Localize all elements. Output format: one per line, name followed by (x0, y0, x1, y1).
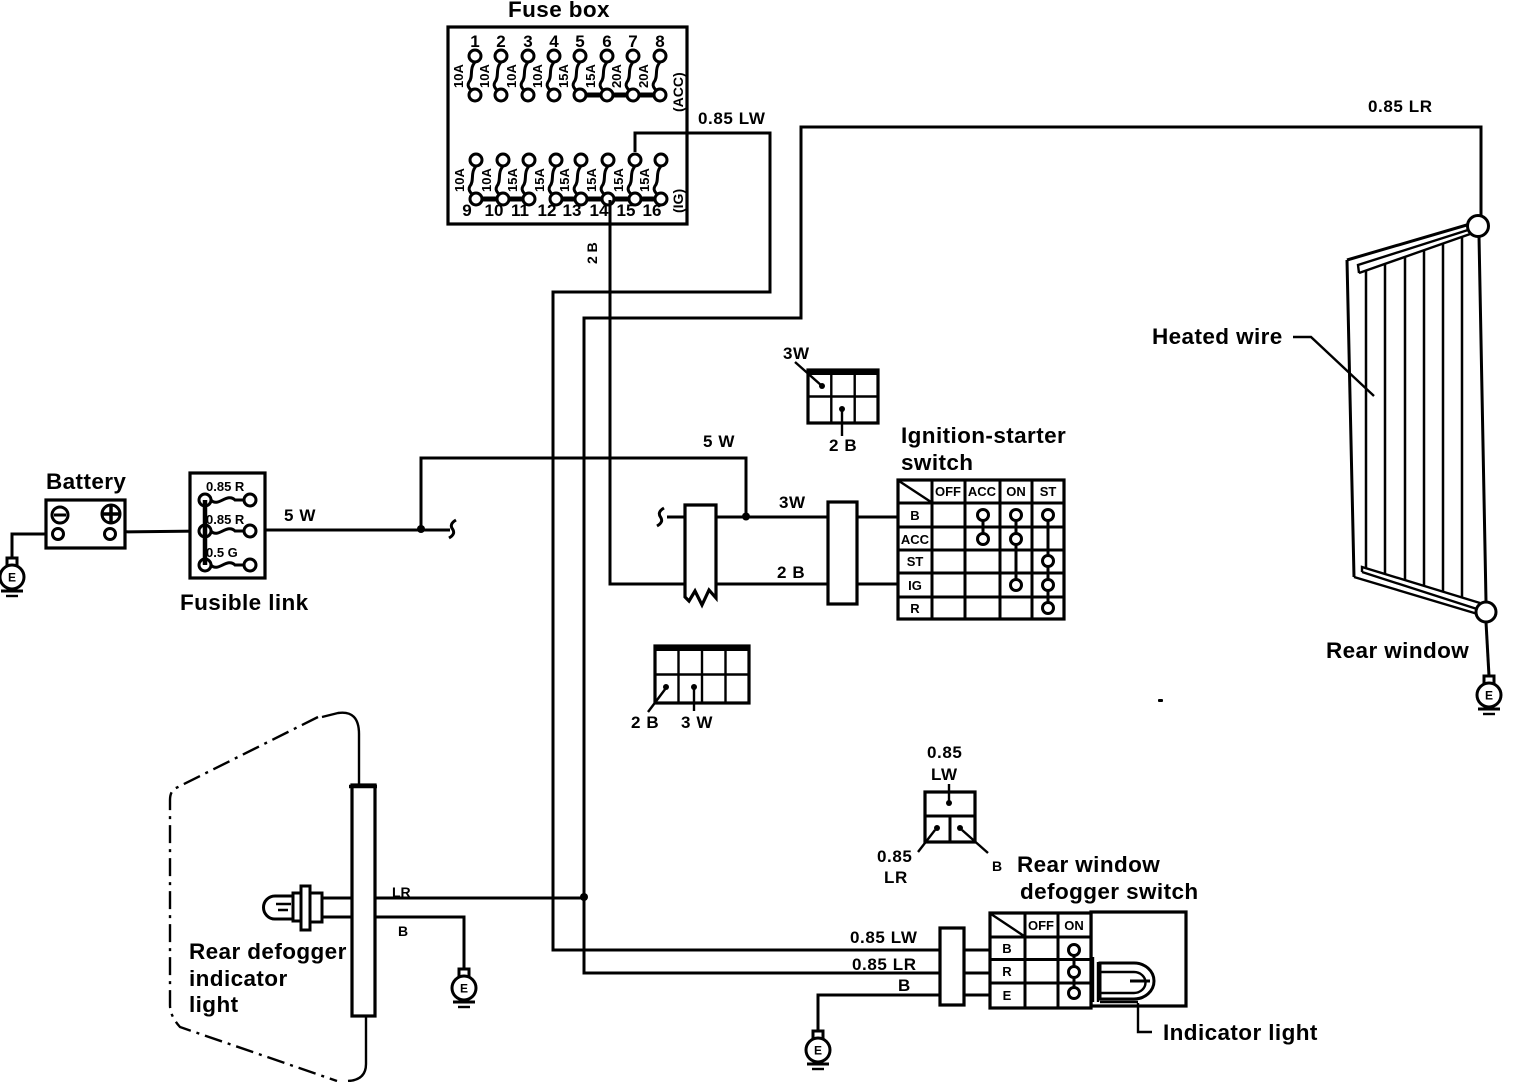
svg-text:E: E (1003, 988, 1012, 1003)
svg-text:B: B (898, 976, 911, 995)
svg-text:3W: 3W (783, 344, 810, 363)
connector grid 3x2 (783, 344, 878, 455)
svg-text:E: E (460, 982, 468, 996)
fuse 10 (10A) (479, 154, 509, 220)
junction node LR (580, 893, 588, 901)
svg-text:Indicator light: Indicator light (1163, 1020, 1318, 1045)
svg-text:Heated wire: Heated wire (1152, 324, 1283, 349)
svg-text:3W: 3W (779, 493, 806, 512)
svg-text:2 B: 2 B (829, 436, 857, 455)
svg-text:Ignition-starter: Ignition-starter (901, 423, 1066, 448)
fuse 12 (15A) (532, 154, 562, 220)
svg-text:ST: ST (907, 554, 924, 569)
svg-text:15A: 15A (532, 168, 547, 192)
svg-text:10A: 10A (479, 168, 494, 192)
svg-text:(IG): (IG) (670, 189, 686, 213)
wire 0.85 LW from fuse 15 to defogger switch (553, 133, 990, 950)
fuse 6 (15A) (583, 32, 613, 101)
connector symbol on 3W wire (657, 508, 664, 526)
svg-text:15A: 15A (584, 168, 599, 192)
wire LR indicator light branch (376, 897, 584, 900)
svg-text:IG: IG (908, 578, 922, 593)
svg-text:15A: 15A (611, 168, 626, 192)
svg-text:Fusible link: Fusible link (180, 590, 309, 615)
svg-text:5 W: 5 W (284, 506, 316, 525)
rear window (1326, 216, 1496, 664)
svg-text:R: R (1002, 964, 1012, 979)
fuse 14 (15A) (584, 154, 614, 220)
svg-text:indicator: indicator (189, 966, 288, 991)
svg-text:2 B: 2 B (631, 713, 659, 732)
svg-text:Rear defogger: Rear defogger (189, 939, 347, 964)
svg-text:E: E (814, 1044, 822, 1058)
connector symbol on 5W wire (449, 520, 456, 538)
rear defogger indicator panel outline (170, 713, 377, 1081)
svg-text:0.5 G: 0.5 G (206, 545, 238, 560)
svg-text:2 B: 2 B (584, 242, 600, 264)
fuse 7 (20A) (609, 32, 639, 101)
fuse 9 (10A) (452, 154, 482, 220)
fuse 11 (15A) (505, 154, 535, 220)
connector grid 4x2 (631, 646, 749, 732)
wire B indicator light to ground (376, 917, 464, 969)
svg-text:switch: switch (901, 450, 973, 475)
wire 3W to ignition switch (667, 516, 898, 519)
svg-text:OFF: OFF (1028, 918, 1054, 933)
fuse 13 (15A) (557, 154, 587, 220)
svg-text:(ACC): (ACC) (670, 72, 686, 112)
rear window defogger switch (990, 852, 1199, 1008)
svg-text:15A: 15A (556, 64, 571, 88)
svg-text:Fuse box: Fuse box (508, 0, 610, 22)
svg-text:ON: ON (1006, 484, 1026, 499)
wire B defogger switch to ground (818, 995, 990, 1031)
indicator bulb (264, 886, 323, 930)
ground indicator B (452, 969, 476, 1007)
fuse 8 (20A) (636, 32, 666, 101)
svg-text:4: 4 (549, 32, 559, 51)
small connector 1+2 (877, 743, 1002, 887)
svg-text:B: B (992, 858, 1002, 874)
svg-text:5 W: 5 W (703, 432, 735, 451)
svg-text:R: R (910, 601, 920, 616)
fusible link (180, 473, 316, 615)
connector rect defogger (940, 928, 964, 1005)
wire rear window to ground (1486, 622, 1489, 676)
ground switch E (806, 1031, 830, 1069)
svg-text:5: 5 (575, 32, 584, 51)
label indicator light (1138, 1003, 1152, 1032)
svg-text:defogger switch: defogger switch (1020, 879, 1199, 904)
fuse 15 (15A) (611, 154, 641, 220)
svg-text:ACC: ACC (968, 484, 997, 499)
svg-text:10A: 10A (504, 64, 519, 88)
svg-text:0.85 R: 0.85 R (206, 479, 245, 494)
svg-text:Rear window: Rear window (1326, 638, 1469, 663)
svg-text:0.85 LW: 0.85 LW (698, 109, 766, 128)
svg-text:3: 3 (523, 32, 532, 51)
svg-text:ACC: ACC (901, 532, 930, 547)
ground rear window (1477, 676, 1501, 714)
svg-text:2 B: 2 B (777, 563, 805, 582)
connector with break (zigzag) (685, 505, 716, 605)
svg-text:15A: 15A (505, 168, 520, 192)
ground battery (0, 558, 24, 596)
svg-text:0.85 LR: 0.85 LR (1368, 97, 1433, 116)
svg-text:3 W: 3 W (681, 713, 713, 732)
indicator bulb stem (322, 898, 352, 917)
svg-text:LR: LR (392, 884, 411, 900)
svg-text:15A: 15A (583, 64, 598, 88)
svg-text:E: E (1485, 689, 1493, 703)
svg-text:0.85 LR: 0.85 LR (852, 955, 917, 974)
svg-text:2: 2 (496, 32, 505, 51)
fuse 1 (10A) (451, 32, 481, 101)
wire battery to fusible link (110, 531, 205, 532)
indicator light bulb in switch (1093, 957, 1154, 1002)
fuse 4 (10A) (530, 32, 560, 101)
fuse row 2 bus bars (476, 197, 529, 202)
svg-text:10A: 10A (451, 64, 466, 88)
wire 5W fusible link to connector stub (250, 529, 450, 532)
svg-text:LR: LR (884, 868, 908, 887)
svg-text:6: 6 (602, 32, 611, 51)
junction node 3W (742, 513, 750, 521)
svg-text:0.85: 0.85 (877, 847, 913, 866)
svg-text:20A: 20A (609, 64, 624, 88)
svg-text:B: B (398, 923, 408, 939)
svg-text:15A: 15A (557, 168, 572, 192)
svg-text:0.85 LW: 0.85 LW (850, 928, 918, 947)
fuse 2 (10A) (477, 32, 507, 101)
svg-text:ON: ON (1064, 918, 1084, 933)
svg-text:LW: LW (931, 765, 958, 784)
svg-text:7: 7 (628, 32, 637, 51)
inline connector rectangle (828, 502, 857, 604)
battery (46, 469, 126, 548)
scan speck (1158, 699, 1163, 702)
wire 5W branch up and over to ignition switch (421, 458, 746, 529)
svg-text:10A: 10A (530, 64, 545, 88)
svg-text:Battery: Battery (46, 469, 126, 494)
wire 0.85 LR rear window to defogger switch (584, 127, 1481, 973)
ignition-starter switch (898, 423, 1066, 619)
fuse row 1 bus bar (580, 93, 660, 98)
fuse 3 (10A) (504, 32, 534, 101)
fuse 16 (15A) (637, 154, 667, 220)
svg-text:0.85: 0.85 (927, 743, 963, 762)
wire 2B from fuse 14 down to ignition switch (610, 200, 898, 584)
svg-text:1: 1 (470, 32, 479, 51)
wire battery to ground (12, 534, 52, 558)
svg-text:0.85 R: 0.85 R (206, 512, 245, 527)
svg-text:B: B (1002, 941, 1011, 956)
svg-text:20A: 20A (636, 64, 651, 88)
junction node 5W (417, 525, 425, 533)
svg-text:E: E (8, 571, 16, 585)
fuse box outline (448, 27, 687, 224)
svg-text:light: light (189, 992, 239, 1017)
svg-text:OFF: OFF (935, 484, 961, 499)
svg-text:8: 8 (655, 32, 664, 51)
svg-text:Rear window: Rear window (1017, 852, 1160, 877)
svg-text:10A: 10A (452, 168, 467, 192)
fuse 5 (15A) (556, 32, 586, 101)
svg-text:15A: 15A (637, 168, 652, 192)
svg-text:10A: 10A (477, 64, 492, 88)
svg-text:B: B (910, 508, 919, 523)
svg-text:ST: ST (1040, 484, 1057, 499)
